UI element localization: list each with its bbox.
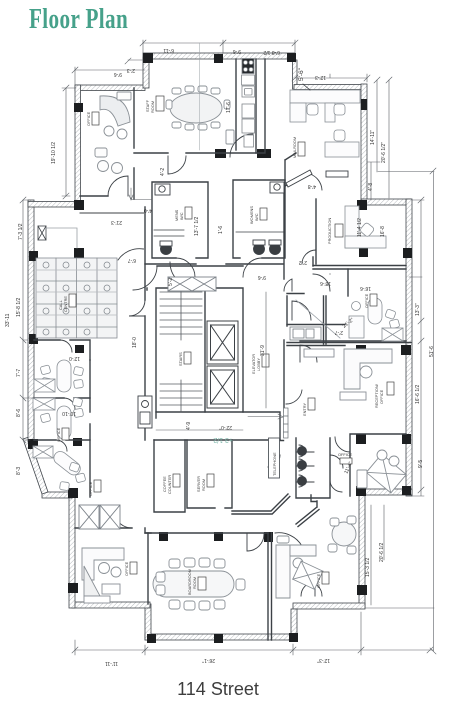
svg-text:6'-8 1/2: 6'-8 1/2 [263, 49, 280, 55]
wall: office/staff divider [133, 88, 135, 199]
wall: wc stalls block [296, 438, 330, 498]
dim line: far right long [377, 80, 434, 651]
svg-text:14'-11": 14'-11" [370, 130, 376, 145]
dim leader: entry [248, 414, 283, 419]
label: SW office [124, 561, 137, 576]
column west chamfer top [28, 439, 38, 449]
door arcs [56, 134, 350, 596]
column NW [74, 103, 83, 112]
wall: bottom of SW office [72, 602, 150, 608]
svg-text:16'-6 1/2: 16'-6 1/2 [415, 384, 421, 404]
wall: call centre top [28, 202, 76, 208]
furniture: reception desk [304, 349, 392, 400]
column left offices a [75, 345, 84, 353]
furniture: staff room oval table [166, 86, 234, 144]
door: corridor north core [133, 266, 157, 290]
wall: corridor north of core [147, 266, 243, 290]
door: entry outer [286, 390, 302, 404]
column west wall a [29, 251, 38, 261]
label: stairs [178, 352, 191, 366]
door: wc stalls [330, 455, 343, 492]
wall: shaft east [258, 59, 265, 153]
wall: bottom of SE block [293, 603, 365, 609]
column boardroom bottom left [147, 634, 156, 643]
wall: left office dividers [34, 398, 90, 440]
furniture: SE block desks [276, 536, 323, 598]
wall: stairs/elevator divider [204, 288, 206, 412]
door: corridor west of core a [129, 300, 145, 316]
label: corner office [88, 480, 101, 496]
mail counter diagonal [286, 170, 348, 187]
door: office below call centre [60, 340, 72, 352]
core: elevator shafts [207, 321, 238, 408]
svg-text:18'-6: 18'-6 [320, 280, 331, 286]
column NW bottom [74, 200, 84, 210]
door: mid office [313, 274, 330, 291]
label: production [327, 218, 343, 244]
column reception NE [401, 345, 411, 355]
furniture: left office 2 [33, 397, 84, 439]
wall: NE mailroom west diagonal [285, 153, 310, 186]
svg-text:22'-0": 22'-0" [219, 424, 232, 430]
wall: boardroom east [268, 533, 272, 640]
column boardroom top right [264, 532, 273, 542]
door: closet [292, 301, 311, 320]
column reception NW [356, 345, 366, 355]
door: reception entry [300, 345, 317, 362]
wall: east wall lower block [359, 495, 365, 608]
furniture: SE round table [328, 516, 356, 554]
core: stairs treads [160, 288, 202, 412]
wall: step down SE [291, 609, 297, 639]
svg-text:7'-3 1/2: 7'-3 1/2 [18, 223, 24, 240]
door: SE block doors [301, 582, 322, 596]
svg-text:12'-0: 12'-0 [69, 355, 80, 361]
svg-text:ROOM: ROOM [150, 101, 155, 113]
svg-text:PRODUCTION: PRODUCTION [327, 218, 332, 244]
column west wall b [29, 334, 38, 344]
door: SE office [335, 437, 350, 452]
column staff bottom mid [215, 149, 226, 158]
svg-text:10'-10: 10'-10 [62, 410, 76, 416]
wall: step down right of kitchen [293, 60, 298, 89]
svg-text:W/C: W/C [254, 213, 259, 221]
svg-text:2'-2: 2'-2 [299, 259, 307, 265]
wall: core south corridor [145, 412, 280, 440]
wall: production west [315, 199, 317, 264]
svg-text:6'-7: 6'-7 [128, 257, 136, 263]
door: boardroom [247, 534, 264, 551]
svg-text:15'-3 1/2: 15'-3 1/2 [365, 557, 371, 577]
svg-text:1'-6: 1'-6 [218, 226, 224, 234]
dim line: left main [23, 200, 34, 440]
wall: diagonal corridor to SE block [232, 494, 319, 527]
svg-text:21'-3: 21'-3 [111, 219, 122, 225]
column SE bottom step [289, 633, 298, 642]
door: corridor west [170, 262, 196, 288]
door: telephone room [268, 455, 280, 467]
wall: SW block top step [42, 492, 72, 498]
wall: staff room south [134, 152, 258, 154]
column staff top mid [214, 54, 223, 63]
furniture: production office [345, 206, 386, 248]
svg-text:ENTRY: ENTRY [302, 402, 307, 416]
svg-text:4'-0: 4'-0 [144, 207, 152, 213]
wall: heavy corridor wall south of production [287, 266, 411, 346]
photocopy X tables [79, 277, 216, 529]
dim line: left NW [62, 88, 76, 196]
fixtures: womens wc [236, 182, 284, 255]
column left offices b [73, 438, 82, 446]
wall: mid office west [347, 269, 349, 296]
label: womens wc [249, 206, 267, 224]
column SE office NE [402, 434, 411, 444]
svg-text:13'-3": 13'-3" [415, 303, 421, 316]
svg-text:16'-6: 16'-6 [360, 285, 371, 291]
svg-text:+3 1/2: +3 1/2 [213, 436, 233, 443]
dim line: top staff [143, 40, 295, 53]
furniture: mailroom open office desks [290, 84, 360, 157]
door: staff room SE [230, 134, 253, 157]
dim line: NE top [295, 74, 367, 82]
wall: west diagonal chamfer [23, 437, 48, 494]
svg-text:9'-6: 9'-6 [233, 48, 241, 54]
wall: coffee/server north [154, 439, 280, 441]
dim line: top NW office [75, 60, 145, 85]
svg-text:LOBBY: LOBBY [256, 358, 261, 371]
wall: SE office west [350, 434, 406, 496]
kitchen: stove and counters [242, 59, 255, 148]
door: left office b [56, 440, 67, 451]
door: SW office [114, 510, 132, 528]
label: mailroom [292, 137, 305, 158]
svg-text:MAILROOM: MAILROOM [292, 137, 297, 158]
svg-text:13'-7 1/2: 13'-7 1/2 [194, 216, 200, 236]
dim leader: 4-0 [129, 188, 152, 200]
column staff bottom right [257, 149, 271, 158]
furniture: left office 3 (corner) [33, 446, 86, 491]
furniture: SE office diagonal [357, 450, 406, 493]
wall: step up to staff room [143, 57, 149, 88]
fixtures: mens wc [154, 184, 184, 255]
column SE office SE [402, 486, 411, 495]
svg-text:33'-11: 33'-11 [5, 313, 11, 327]
millwork: cabinets mid right [290, 327, 321, 340]
label: mens wc [174, 207, 192, 221]
label: entry [302, 398, 315, 416]
column boardroom bottom mid [214, 634, 223, 643]
column east step [357, 200, 367, 210]
svg-text:4'-8: 4'-8 [368, 183, 374, 191]
wall: corridor south of wc [145, 263, 283, 265]
svg-text:CENTRE: CENTRE [63, 296, 68, 312]
wall: kitchen east [255, 59, 257, 153]
svg-text:6'-11: 6'-11 [163, 47, 174, 53]
label: mid office [364, 293, 377, 308]
wall: NW block west wall [75, 85, 81, 203]
wall: NE block top [294, 85, 366, 90]
svg-text:20'-6 1/2": 20'-6 1/2" [381, 142, 387, 163]
svg-text:OFFICE: OFFICE [86, 111, 91, 126]
label: SE block office [316, 572, 329, 588]
wall: bottom of SE office [357, 489, 412, 495]
street label [0, 679, 436, 700]
svg-text:OFFICE: OFFICE [338, 452, 353, 457]
wall: step left of boardroom [145, 604, 151, 640]
svg-text:5'-2: 5'-2 [168, 278, 174, 286]
wall: SW office top [75, 528, 151, 533]
door: womens wc [243, 258, 262, 277]
label: NW office [86, 111, 99, 126]
svg-text:TELEPHONE: TELEPHONE [272, 452, 277, 476]
svg-text:9'-6: 9'-6 [114, 71, 122, 77]
svg-text:26'-1": 26'-1" [202, 657, 215, 663]
wall: wc corridor east / womens wc [233, 180, 285, 258]
column SE office NW [356, 434, 366, 444]
wall: mens wc [152, 182, 208, 258]
wall: coffee counter room [154, 440, 185, 512]
door: production [302, 250, 316, 264]
title [29, 3, 128, 36]
column SE office SW [356, 486, 366, 496]
wall: staff room / kitchen top [143, 53, 295, 59]
door: mens wc [176, 258, 195, 277]
svg-text:OFFICE: OFFICE [124, 561, 129, 576]
label: staff room [145, 96, 164, 113]
exterior walls (hatched bands) [23, 53, 412, 640]
svg-text:2'-3: 2'-3 [127, 67, 135, 73]
dim line: bottom long [75, 612, 433, 655]
column NE wall dark strip [361, 99, 367, 110]
wall: office below call centre [34, 340, 90, 360]
svg-text:15'-8 1/2: 15'-8 1/2 [16, 297, 22, 317]
wall: SW office east [147, 533, 149, 604]
wall: NW office south [80, 195, 108, 197]
svg-text:51'-6: 51'-6 [429, 346, 435, 357]
dim line: staff room centreline [199, 43, 201, 150]
wall: SW office west [69, 495, 75, 608]
svg-text:OFFICE: OFFICE [364, 293, 369, 308]
wall: corridor west of core [144, 207, 146, 412]
door: corridor a [284, 279, 292, 291]
interior walls [34, 59, 411, 640]
svg-text:20'-6 1/2: 20'-6 1/2 [379, 542, 385, 562]
label: call centre [58, 294, 76, 312]
svg-text:11'-11: 11'-11 [105, 660, 118, 666]
svg-text:18'-0: 18'-0 [132, 337, 138, 348]
wall: kitchen west [235, 59, 237, 150]
wall: lobby east [284, 188, 326, 412]
svg-text:5'-6": 5'-6" [298, 67, 305, 81]
door: mailroom [310, 174, 322, 190]
svg-text:ROOM: ROOM [192, 577, 197, 589]
wall: top of NW office block [75, 85, 145, 91]
cabinet row near core SW [138, 396, 152, 428]
furniture: boardroom table [153, 558, 245, 610]
door: SE block from corridor [275, 533, 302, 546]
svg-text:31'-9: 31'-9 [260, 345, 266, 356]
labels: coffee counter and server room [162, 474, 214, 494]
dim line: lobby vertical [265, 292, 267, 408]
wall: core outline [156, 288, 243, 412]
fixtures: wc stalls bottom [296, 445, 314, 487]
wall: NE block east [361, 84, 367, 200]
column SW office NW [68, 488, 78, 498]
wall: east step out [361, 199, 411, 205]
svg-text:4'-8: 4'-8 [308, 183, 316, 189]
furniture: left office 1 [34, 360, 84, 392]
black columns [28, 53, 412, 643]
wall: server room [187, 440, 232, 508]
column call centre mid [74, 248, 84, 258]
telephone closet [269, 438, 280, 478]
column east lower [357, 585, 367, 595]
wall: entry vestibule [269, 440, 284, 442]
column SW office SW [68, 583, 78, 593]
dim line: core 22-0 [156, 429, 243, 431]
furniture: mid-right office [296, 298, 403, 341]
door: call centre east [118, 249, 144, 260]
wall: boardroom bottom [145, 634, 297, 640]
svg-text:4'-2: 4'-2 [160, 168, 166, 176]
glazing: entry vestibule [284, 408, 289, 438]
svg-text:STAIRS: STAIRS [178, 352, 183, 366]
door: staff room [168, 156, 186, 174]
dimension lines [20, 40, 436, 655]
svg-text:9'-5: 9'-5 [418, 460, 424, 468]
column boardroom top left [159, 532, 168, 541]
column staff top left [143, 53, 153, 63]
wall: left offices east wall [89, 360, 91, 497]
svg-text:OFFICE: OFFICE [316, 573, 321, 588]
wall: reception north [300, 340, 406, 342]
svg-text:OFFICE: OFFICE [88, 481, 93, 496]
svg-text:2'-7: 2'-7 [335, 329, 343, 335]
wall: main west wall [28, 200, 34, 442]
svg-text:11'-4 1/2: 11'-4 1/2 [357, 218, 363, 237]
svg-text:8'-6: 8'-6 [16, 409, 22, 417]
column boardroom top mid [214, 532, 223, 541]
dim line: bottom right block [365, 505, 434, 608]
wall: main east wall [406, 199, 412, 496]
furniture: NW office [95, 92, 131, 174]
column staff top right [287, 53, 296, 62]
svg-text:OFFICE: OFFICE [56, 427, 61, 442]
wall: corridor top thin [80, 212, 144, 214]
svg-text:12'-3": 12'-3" [317, 657, 330, 663]
svg-text:19'-10 1/2: 19'-10 1/2 [51, 142, 57, 164]
svg-text:4'-9: 4'-9 [186, 422, 192, 430]
svg-text:W/C: W/C [179, 212, 184, 220]
svg-text:16'-8: 16'-8 [380, 226, 386, 237]
svg-text:17'-6: 17'-6 [226, 102, 232, 113]
wall: boardroom top [145, 532, 268, 534]
door: NW office [108, 176, 128, 196]
call centre cubicle grid [36, 226, 117, 338]
door: left office a [64, 398, 75, 409]
column production south [359, 248, 368, 257]
label: boardroom [187, 569, 206, 595]
furniture: SW office [82, 548, 124, 603]
label: SE office [338, 452, 353, 464]
label: left office [56, 427, 69, 442]
svg-text:8'-3: 8'-3 [16, 467, 22, 475]
label: elevator lobby [251, 354, 269, 374]
label: reception/office [374, 382, 394, 408]
svg-text:COUNTER: COUNTER [167, 475, 172, 494]
dim line: right mailroom [367, 162, 380, 200]
svg-text:7'-7: 7'-7 [16, 369, 22, 377]
column east wall mid [403, 248, 412, 258]
svg-text:OFFICE: OFFICE [379, 389, 384, 404]
svg-text:12'-3: 12'-3 [315, 74, 326, 80]
svg-text:ROOM: ROOM [201, 479, 206, 491]
svg-text:9'-6: 9'-6 [258, 274, 266, 280]
